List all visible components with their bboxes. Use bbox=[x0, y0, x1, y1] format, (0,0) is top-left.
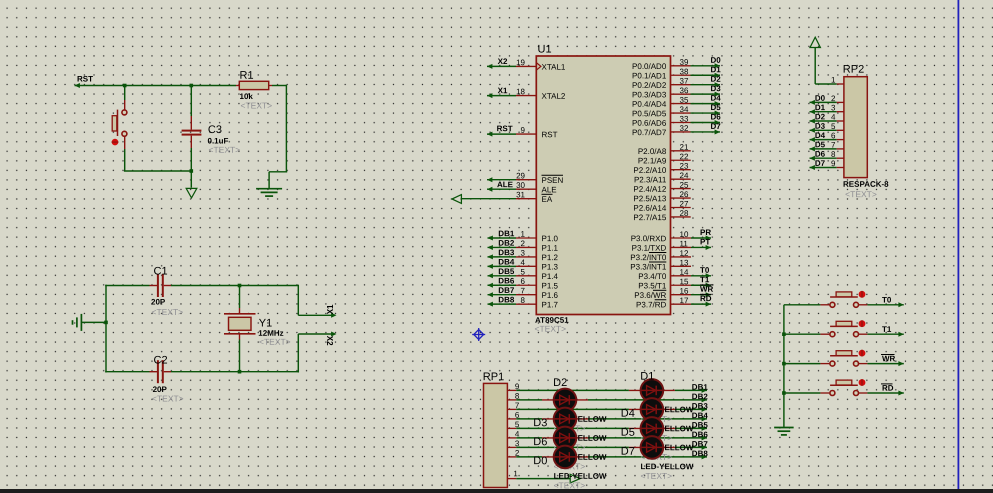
node ALE label bbox=[497, 180, 514, 189]
svg-text:D5: D5 bbox=[710, 103, 721, 112]
U1 pin 18 (XTAL2) stub bbox=[516, 87, 566, 101]
svg-text:P3.5/T1: P3.5/T1 bbox=[638, 281, 667, 290]
svg-text:32: 32 bbox=[679, 124, 688, 133]
wire RP1 pin 4 to DB6 bbox=[516, 435, 707, 440]
node T1 label bbox=[882, 325, 892, 334]
svg-text:<TEXT>: <TEXT> bbox=[845, 189, 877, 199]
svg-text:D1: D1 bbox=[710, 65, 721, 74]
node D4 label (chip right) bbox=[710, 94, 721, 103]
U1 pin 6 (P1.5) stub bbox=[516, 277, 559, 291]
wire RP1 pin 3 to DB7 bbox=[516, 445, 707, 450]
svg-text:P3.3/INT1: P3.3/INT1 bbox=[630, 263, 667, 272]
svg-text:D4: D4 bbox=[815, 131, 826, 140]
svg-text:PR: PR bbox=[700, 228, 711, 237]
U1 pin 22 (P2.1/A9) stub bbox=[638, 152, 691, 165]
svg-text:34: 34 bbox=[679, 105, 688, 114]
svg-text:WR: WR bbox=[882, 354, 896, 363]
LED D6 TEXT placeholder bbox=[554, 461, 586, 471]
node X1 (rotated label) bbox=[326, 304, 335, 314]
svg-text:RP1: RP1 bbox=[483, 371, 504, 383]
U1 pin 36 (P0.3/AD3) stub bbox=[632, 86, 690, 99]
node DB1 label (left) bbox=[498, 229, 515, 238]
RP2 pin 4 wire (D2) bbox=[810, 119, 844, 124]
svg-text:1: 1 bbox=[513, 469, 518, 478]
svg-text:2: 2 bbox=[521, 239, 526, 248]
wire T1 from P3.5/T1 bbox=[691, 283, 711, 288]
svg-text:6: 6 bbox=[831, 131, 836, 140]
U1 pin 9 (RST) stub bbox=[516, 126, 558, 140]
U1 pin 37 (P0.2/AD2) stub bbox=[632, 77, 690, 90]
wire WR from P3.6/WR bbox=[691, 292, 711, 297]
svg-text:6: 6 bbox=[521, 277, 526, 286]
RP1 pin 4 stub bbox=[507, 430, 519, 439]
LED D5 value LED-YELLOW bbox=[640, 443, 693, 452]
svg-text:27: 27 bbox=[679, 199, 688, 208]
resistor pack RP2 bbox=[844, 77, 867, 178]
wire T1 button left bbox=[784, 333, 830, 335]
node D5 label (chip right) bbox=[710, 103, 721, 112]
label C3 bbox=[208, 124, 222, 136]
svg-text:ALE: ALE bbox=[497, 180, 514, 189]
label D7 bbox=[621, 446, 635, 458]
svg-text:P3.2/INT0: P3.2/INT0 bbox=[630, 253, 667, 262]
svg-text:P1.5: P1.5 bbox=[541, 281, 558, 290]
junction rail row WR bbox=[782, 362, 786, 366]
svg-text:19: 19 bbox=[516, 58, 525, 67]
svg-text:X2: X2 bbox=[325, 336, 334, 346]
value 0.1uF bbox=[207, 136, 228, 145]
value 20P (C1) bbox=[151, 297, 166, 306]
svg-text:P3.0/RXD: P3.0/RXD bbox=[631, 234, 667, 243]
node D6 label (RP2) bbox=[815, 150, 836, 159]
U1 pin 28 (P2.7/A15) stub bbox=[633, 209, 690, 222]
wire PR from P3.0/RXD bbox=[691, 236, 711, 241]
Y1 TEXT placeholder bbox=[259, 337, 291, 347]
wire D5 from P0.5 bbox=[691, 111, 721, 116]
label D6 bbox=[533, 436, 547, 448]
svg-text:R1: R1 bbox=[239, 70, 253, 82]
svg-text:P2.4/A12: P2.4/A12 bbox=[633, 185, 666, 194]
svg-text:36: 36 bbox=[679, 86, 688, 95]
node PT label (chip right) bbox=[700, 237, 710, 246]
svg-text:P2.5/A13: P2.5/A13 bbox=[633, 194, 666, 203]
wire RD button right bbox=[859, 391, 904, 396]
LED D2 value LED-YELLOW bbox=[554, 415, 607, 424]
U1 TEXT placeholder bbox=[534, 324, 566, 334]
RP2 pin 2 wire (D0) bbox=[810, 100, 844, 105]
svg-text:28: 28 bbox=[679, 209, 688, 218]
U1 pin 2 (P1.1) stub bbox=[516, 239, 559, 253]
U1 pin 13 (P3.3/INT1) stub bbox=[630, 258, 691, 271]
C3 TEXT placeholder bbox=[208, 145, 240, 155]
svg-text:3: 3 bbox=[831, 103, 836, 112]
svg-text:DB7: DB7 bbox=[692, 440, 709, 449]
label C2 bbox=[153, 354, 167, 366]
svg-text:P2.2/A10: P2.2/A10 bbox=[633, 166, 666, 175]
svg-text:C3: C3 bbox=[208, 124, 222, 136]
svg-text:RD: RD bbox=[700, 294, 712, 303]
svg-text:P2.6/A14: P2.6/A14 bbox=[633, 204, 666, 213]
U1 pin 39 (P0.0/AD0) stub bbox=[632, 58, 690, 71]
svg-text:9: 9 bbox=[831, 159, 836, 168]
svg-text:LED-YELLOW: LED-YELLOW bbox=[554, 472, 607, 481]
svg-text:DB5: DB5 bbox=[692, 421, 709, 430]
LED D0 TEXT placeholder bbox=[554, 480, 586, 490]
RP1 pin 2 stub bbox=[507, 449, 519, 458]
wire RP1 pin 8 to DB2 bbox=[516, 397, 707, 402]
svg-text:T1: T1 bbox=[700, 275, 710, 284]
wire DB4 to P1.3 bbox=[488, 264, 517, 269]
U1 pin 29 (PSEN) stub bbox=[516, 171, 564, 185]
ground GND1 (right of RST circuit) bbox=[256, 189, 282, 196]
junction rail-ground bbox=[104, 321, 108, 325]
LED D5 TEXT placeholder bbox=[640, 452, 672, 462]
U1 pin 11 (P3.1/TXD) stub bbox=[632, 239, 691, 252]
wire DB3 to P1.2 bbox=[488, 254, 517, 259]
wire X1 to XTAL2 bbox=[487, 93, 516, 98]
wire DB6 to P1.5 bbox=[488, 283, 517, 288]
svg-text:P0.6/AD6: P0.6/AD6 bbox=[632, 119, 667, 128]
svg-text:21: 21 bbox=[679, 143, 688, 152]
label D3 bbox=[533, 417, 547, 429]
LED D2 body bbox=[554, 389, 577, 412]
LED D5 body bbox=[641, 417, 664, 440]
U1 pin 1 (P1.0) stub bbox=[516, 230, 559, 244]
svg-text:DB6: DB6 bbox=[692, 430, 709, 439]
wire RST to chip bbox=[487, 132, 516, 137]
node X2 (rotated label) bbox=[325, 336, 334, 346]
node DB8 label (right) bbox=[692, 449, 709, 458]
svg-text:P2.7/A15: P2.7/A15 bbox=[633, 213, 666, 222]
node DB5 label (left) bbox=[498, 267, 515, 276]
node X2 label bbox=[498, 57, 508, 66]
wire RD button left bbox=[784, 392, 830, 394]
node PR label (chip right) bbox=[700, 228, 711, 237]
LED D6 value LED-YELLOW bbox=[554, 453, 607, 462]
svg-text:P0.3/AD3: P0.3/AD3 bbox=[632, 90, 667, 99]
RP1 pin 1 stub and open-arrow terminal bbox=[507, 469, 580, 483]
svg-text:25: 25 bbox=[679, 181, 688, 190]
svg-text:<TEXT>: <TEXT> bbox=[152, 393, 184, 403]
svg-text:7: 7 bbox=[831, 141, 836, 150]
value RESPACK-8 bbox=[843, 180, 889, 189]
svg-text:DB7: DB7 bbox=[498, 286, 515, 295]
wire button common rail bbox=[783, 305, 785, 427]
svg-text:P0.0/AD0: P0.0/AD0 bbox=[632, 62, 667, 71]
node RD label (chip right) bbox=[700, 294, 712, 303]
svg-text:3: 3 bbox=[521, 249, 526, 258]
ground GND3 (buttons) bbox=[774, 428, 794, 435]
node D0 label (RP2) bbox=[815, 94, 836, 103]
svg-text:29: 29 bbox=[516, 171, 525, 180]
svg-text:P1.4: P1.4 bbox=[541, 272, 558, 281]
svg-text:ALE: ALE bbox=[541, 185, 556, 194]
label D2 bbox=[553, 377, 567, 389]
RP1 pin 6 stub bbox=[507, 411, 519, 420]
LED D3 body bbox=[554, 408, 577, 431]
svg-text:T0: T0 bbox=[882, 295, 892, 304]
svg-text:C2: C2 bbox=[153, 354, 167, 366]
svg-text:P0.7/AD7: P0.7/AD7 bbox=[632, 128, 667, 137]
svg-text:P3.7/RD: P3.7/RD bbox=[636, 300, 666, 309]
svg-text:DB2: DB2 bbox=[692, 392, 709, 401]
svg-text:31: 31 bbox=[516, 190, 525, 199]
LED D4 body bbox=[641, 398, 664, 421]
capacitor C1 bbox=[105, 274, 298, 297]
wire WR button left bbox=[784, 363, 830, 365]
node DB2 label (right) bbox=[692, 392, 709, 401]
svg-text:11: 11 bbox=[679, 239, 688, 248]
svg-text:PT: PT bbox=[700, 237, 710, 246]
svg-text:RST: RST bbox=[497, 124, 513, 133]
LED D3 TEXT placeholder bbox=[554, 442, 586, 452]
LED D1 body bbox=[641, 379, 664, 402]
junction rail row T1 bbox=[782, 332, 786, 336]
svg-text:XTAL1: XTAL1 bbox=[541, 63, 565, 72]
ground arrow below C3 bbox=[186, 188, 197, 198]
svg-text:4: 4 bbox=[831, 113, 836, 122]
svg-text:<TEXT>: <TEXT> bbox=[259, 337, 291, 347]
svg-text:35: 35 bbox=[679, 96, 688, 105]
node RST label (chip side) bbox=[497, 124, 513, 133]
label RP2 bbox=[843, 64, 864, 76]
svg-text:1: 1 bbox=[521, 230, 526, 239]
U1 pin 14 (P3.4/T0) stub bbox=[638, 268, 691, 281]
svg-text:LED-YELLOW: LED-YELLOW bbox=[640, 462, 693, 471]
svg-text:38: 38 bbox=[679, 67, 688, 76]
node DB1 label (right) bbox=[692, 383, 709, 392]
label C1 bbox=[153, 265, 167, 277]
power terminal (up arrow) bbox=[810, 37, 820, 84]
svg-text:<TEXT>: <TEXT> bbox=[151, 307, 183, 317]
U1 pin 25 (P2.4/A12) stub bbox=[633, 181, 690, 194]
U1 pin 5 (P1.4) stub bbox=[516, 267, 559, 281]
svg-text:<TEXT>: <TEXT> bbox=[534, 324, 566, 334]
RP1 pin 3 stub bbox=[507, 439, 519, 448]
svg-text:30: 30 bbox=[516, 181, 525, 190]
label D4 bbox=[621, 408, 635, 420]
wire D6 from P0.6 bbox=[691, 120, 721, 125]
RP2 TEXT placeholder bbox=[845, 189, 877, 199]
U1 pin 26 (P2.5/A13) stub bbox=[633, 190, 690, 203]
U1 pin 34 (P0.5/AD5) stub bbox=[632, 105, 690, 118]
svg-text:D2: D2 bbox=[710, 75, 721, 84]
label D0 bbox=[533, 455, 547, 467]
svg-text:1: 1 bbox=[831, 75, 836, 84]
wire T0 from P3.4/T0 bbox=[691, 273, 711, 278]
U1 pin 30 (ALE) stub bbox=[516, 181, 557, 195]
node DB4 label (left) bbox=[498, 258, 515, 267]
value 10k bbox=[239, 92, 253, 101]
svg-text:T0: T0 bbox=[700, 266, 710, 275]
node WR label bbox=[881, 354, 896, 363]
node DB6 label (right) bbox=[692, 430, 709, 439]
node DB2 label (left) bbox=[498, 239, 515, 248]
value AT89C51 bbox=[535, 316, 569, 325]
svg-text:16: 16 bbox=[679, 287, 688, 296]
svg-text:D0: D0 bbox=[710, 56, 721, 65]
U1 pin 15 (P3.5/T1) stub bbox=[638, 277, 691, 290]
svg-text:C1: C1 bbox=[153, 265, 167, 277]
svg-text:7: 7 bbox=[521, 286, 526, 295]
origin marker bbox=[472, 328, 485, 341]
RP2 pin 8 wire (D6) bbox=[810, 156, 844, 161]
svg-text:2: 2 bbox=[831, 94, 836, 103]
node D2 label (RP2) bbox=[815, 112, 836, 121]
svg-text:<TEXT>: <TEXT> bbox=[208, 145, 240, 155]
svg-text:DB4: DB4 bbox=[498, 258, 515, 267]
svg-text:DB1: DB1 bbox=[692, 383, 709, 392]
LED D4 value LED-YELLOW bbox=[640, 424, 693, 433]
svg-text:D7: D7 bbox=[621, 446, 635, 458]
RP2 pin 9 wire (D7) bbox=[810, 165, 844, 170]
svg-text:14: 14 bbox=[679, 268, 688, 277]
svg-text:P1.7: P1.7 bbox=[541, 300, 558, 309]
svg-text:P0.5/AD5: P0.5/AD5 bbox=[632, 109, 667, 118]
label D5 bbox=[621, 427, 635, 439]
wire crystal left rail bbox=[105, 285, 107, 373]
junction at C3 branch bbox=[190, 84, 194, 88]
svg-text:15: 15 bbox=[679, 277, 688, 286]
svg-text:24: 24 bbox=[679, 171, 688, 180]
window bottom bar bbox=[0, 489, 993, 493]
node D6 label (chip right) bbox=[710, 112, 721, 121]
node D1 label (chip right) bbox=[710, 65, 721, 74]
svg-text:17: 17 bbox=[679, 296, 688, 305]
svg-text:5: 5 bbox=[831, 122, 836, 131]
node D7 label (chip right) bbox=[710, 122, 721, 131]
wire button bottom to C3 bottom bbox=[124, 170, 191, 172]
svg-text:37: 37 bbox=[679, 77, 688, 86]
svg-text:RST: RST bbox=[77, 74, 93, 83]
svg-text:39: 39 bbox=[679, 58, 688, 67]
svg-text:<TEXT>: <TEXT> bbox=[240, 100, 272, 110]
LED D3 value LED-YELLOW bbox=[554, 434, 607, 443]
svg-text:22: 22 bbox=[679, 152, 688, 161]
svg-text:D0: D0 bbox=[533, 455, 547, 467]
wire PSEN terminal bbox=[487, 177, 516, 182]
node D1 label (RP2) bbox=[815, 103, 836, 112]
svg-text:P1.2: P1.2 bbox=[541, 253, 558, 262]
svg-text:DB2: DB2 bbox=[498, 239, 515, 248]
node DB7 label (right) bbox=[692, 440, 709, 449]
svg-text:XTAL2: XTAL2 bbox=[541, 92, 565, 101]
LED D7 value LED-YELLOW bbox=[640, 462, 693, 471]
node D0 label (chip right) bbox=[710, 56, 721, 65]
wire D7 from P0.7 bbox=[691, 129, 721, 134]
svg-text:RST: RST bbox=[541, 130, 557, 139]
RP1 pin 8 stub bbox=[507, 392, 519, 401]
label R1 bbox=[239, 70, 253, 82]
RP2 pin 6 wire (D4) bbox=[810, 137, 844, 142]
wire T0 button right bbox=[859, 302, 904, 307]
junction at button branch bbox=[123, 84, 127, 88]
node DB6 label (left) bbox=[498, 276, 515, 285]
LED D2 TEXT placeholder bbox=[554, 423, 586, 433]
resistor pack RP1 bbox=[484, 383, 508, 487]
svg-text:D5: D5 bbox=[621, 427, 635, 439]
node DB3 label (left) bbox=[498, 248, 515, 257]
node D2 label (chip right) bbox=[710, 75, 721, 84]
wire RST horizontal bbox=[75, 85, 237, 87]
node WR label (chip right) bbox=[700, 285, 714, 294]
wire RP1 pin 9 to DB1 bbox=[516, 388, 707, 393]
R1 TEXT placeholder bbox=[240, 100, 272, 110]
svg-text:4: 4 bbox=[521, 258, 526, 267]
U1 pin 24 (P2.3/A11) stub bbox=[634, 171, 691, 184]
svg-text:DB6: DB6 bbox=[498, 276, 515, 285]
svg-text:D3: D3 bbox=[815, 122, 826, 131]
svg-text:RP2: RP2 bbox=[843, 64, 864, 76]
svg-text:DB1: DB1 bbox=[498, 229, 515, 238]
svg-text:P1.6: P1.6 bbox=[541, 291, 558, 300]
RP1 pin 5 stub bbox=[507, 420, 519, 429]
LED D0 value LED-YELLOW bbox=[554, 472, 607, 481]
svg-text:EA: EA bbox=[541, 195, 552, 204]
svg-text:DB3: DB3 bbox=[498, 248, 515, 257]
svg-text:8: 8 bbox=[831, 150, 836, 159]
wire T0 button left bbox=[784, 304, 830, 306]
value 12MHz bbox=[258, 329, 283, 338]
ground GND2 (left of crystal) bbox=[73, 314, 107, 331]
svg-text:D3: D3 bbox=[533, 417, 547, 429]
node RD label bbox=[881, 384, 894, 393]
svg-text:DB8: DB8 bbox=[692, 449, 709, 458]
wire ALE terminal bbox=[487, 187, 516, 192]
svg-text:D2: D2 bbox=[553, 377, 567, 389]
op-amp U1 body (AT89C51 microcontroller) bbox=[536, 56, 670, 315]
wire DB7 to P1.6 bbox=[488, 292, 517, 297]
wire X2 to XTAL1 bbox=[487, 64, 516, 69]
svg-text:PSEN: PSEN bbox=[541, 176, 563, 185]
label Y1 bbox=[259, 317, 272, 329]
svg-text:20P: 20P bbox=[151, 297, 166, 306]
U1 pin 19 (XTAL1) stub bbox=[516, 58, 566, 72]
resistor R1 bbox=[236, 81, 272, 89]
wire RP1 pin 6 to DB4 bbox=[516, 416, 707, 421]
wire D1 from P0.1 bbox=[691, 73, 721, 78]
svg-text:D4: D4 bbox=[621, 408, 635, 420]
U1 pin 31 (EA) stub bbox=[516, 190, 553, 204]
node RST (terminal label) bbox=[75, 74, 94, 88]
C2 TEXT placeholder bbox=[152, 393, 184, 403]
LED D1 TEXT placeholder bbox=[640, 414, 672, 424]
svg-text:12: 12 bbox=[679, 249, 688, 258]
svg-text:D1: D1 bbox=[815, 103, 826, 112]
LED D0 body bbox=[554, 446, 577, 469]
wire D0 from P0.0 bbox=[691, 63, 721, 68]
node T1 label (chip right) bbox=[700, 275, 710, 284]
node T0 label bbox=[882, 295, 892, 304]
node T0 label (chip right) bbox=[700, 266, 710, 275]
LED D6 body bbox=[554, 427, 577, 450]
RP2 pin 7 wire (D5) bbox=[810, 146, 844, 151]
svg-text:5: 5 bbox=[521, 267, 526, 276]
wire RP1 pin 5 to DB5 bbox=[516, 426, 707, 431]
svg-text:26: 26 bbox=[679, 190, 688, 199]
svg-text:DB5: DB5 bbox=[498, 267, 515, 276]
RP1 pin 9 stub bbox=[507, 382, 519, 391]
RP1 pin 7 stub bbox=[507, 401, 519, 410]
svg-text:10: 10 bbox=[679, 230, 688, 239]
wire to terminal X1 (top) bbox=[298, 285, 336, 318]
node DB3 label (right) bbox=[692, 402, 709, 411]
svg-text:D2: D2 bbox=[815, 112, 826, 121]
wire DB2 to P1.1 bbox=[488, 245, 517, 250]
junction rail row RD bbox=[782, 391, 786, 395]
wire WR button right bbox=[859, 361, 904, 366]
svg-text:P2.3/A11: P2.3/A11 bbox=[634, 175, 667, 184]
